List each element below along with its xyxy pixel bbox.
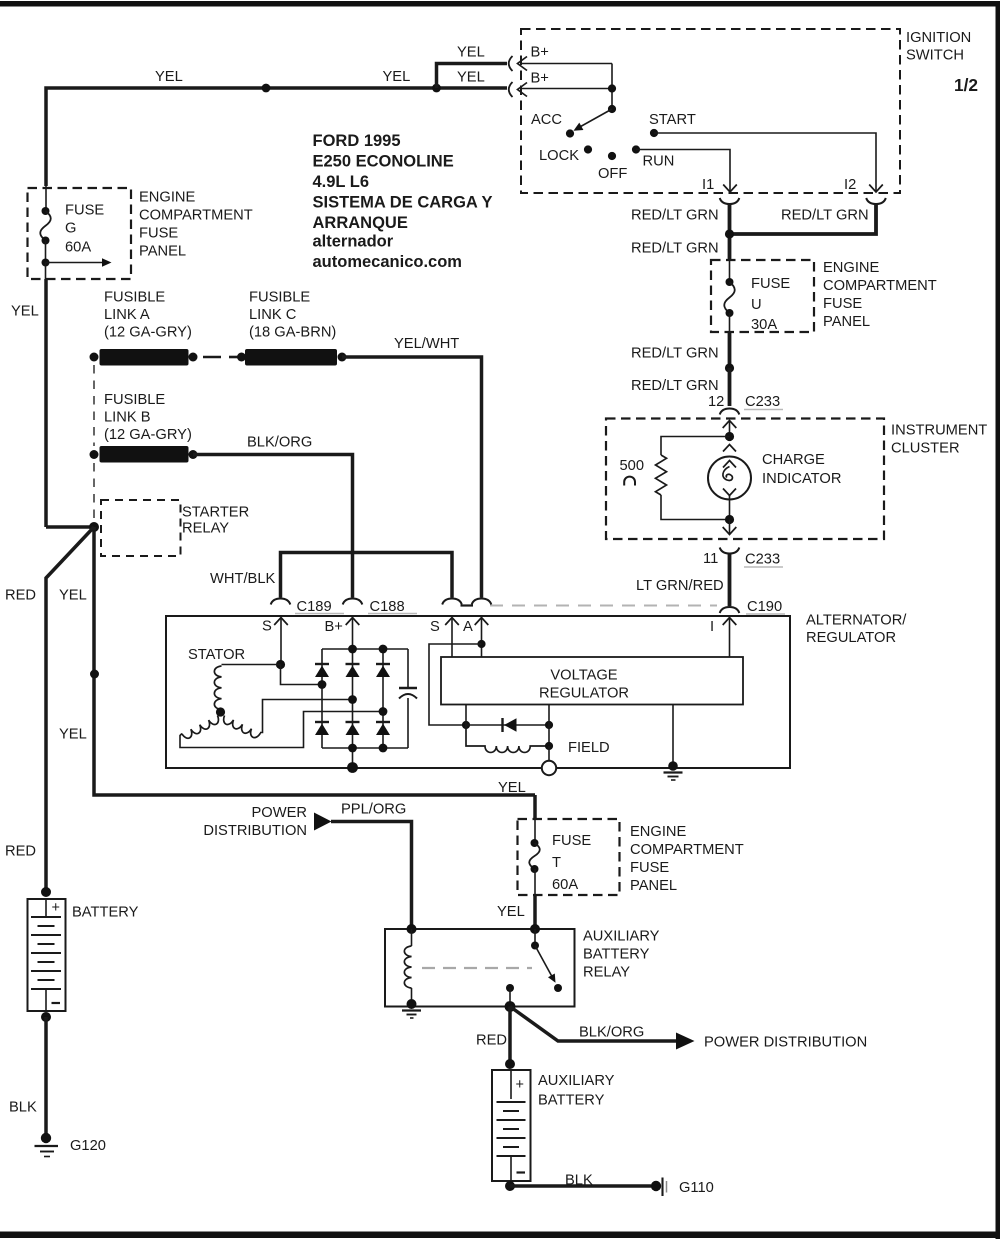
node starter relay terminal dot [89, 522, 99, 532]
svg-text:WHT/BLK: WHT/BLK [210, 571, 275, 587]
wire YEL relay to bottom run [94, 527, 535, 795]
wire YEL branch to upper B+ connector [437, 64, 508, 89]
resistor 500 ohm loop wiring [661, 437, 730, 456]
svg-text:FIELD: FIELD [568, 740, 610, 756]
svg-text:ENGINE: ENGINE [823, 260, 880, 276]
fuse U panel dashed box [711, 260, 814, 332]
node dot B+ junction [608, 84, 616, 92]
ground G120 [41, 1133, 51, 1143]
node stator center junction [216, 707, 225, 716]
svg-text:B+: B+ [325, 619, 343, 635]
svg-text:RED: RED [5, 588, 36, 604]
relay coil [411, 929, 413, 946]
svg-text:RED/LT GRN: RED/LT GRN [781, 208, 869, 224]
svg-text:IGNITION: IGNITION [906, 30, 971, 46]
svg-text:C189: C189 [297, 599, 332, 615]
wire YEL fuse T to relay [533, 895, 537, 929]
node rectifier bottom rail junction B+ [348, 744, 357, 753]
connector A cup [472, 599, 492, 605]
svg-text:RED/LT GRN: RED/LT GRN [631, 241, 719, 257]
node aux battery plus dot [505, 1059, 515, 1069]
svg-text:YEL: YEL [59, 727, 87, 743]
svg-text:FUSIBLE: FUSIBLE [104, 392, 165, 408]
wire PPL/ORG [331, 822, 412, 930]
wire YEL down to fuse T [533, 795, 537, 819]
pin S stator arrow [274, 618, 288, 626]
wire YEL into starter relay [46, 525, 94, 529]
svg-text:30A: 30A [751, 317, 777, 333]
svg-text:G120: G120 [70, 1138, 106, 1154]
node rectifier top rail junction B+ [348, 645, 357, 654]
border frame right [996, 1, 1000, 1239]
svg-text:C233: C233 [745, 394, 780, 410]
svg-text:LT GRN/RED: LT GRN/RED [636, 578, 724, 594]
connector C189 cup [271, 599, 291, 605]
stator winding phase 1 coil [222, 664, 281, 666]
node relay coil bottom dot [407, 999, 417, 1009]
svg-text:(12 GA-GRY): (12 GA-GRY) [104, 427, 192, 443]
node battery plus dot [41, 887, 51, 897]
node junction dot on top YEL wire [262, 84, 271, 93]
svg-text:CLUSTER: CLUSTER [891, 441, 960, 457]
svg-text:S: S [430, 619, 440, 635]
rectifier column 2 (B+) [352, 649, 354, 768]
svg-text:INDICATOR: INDICATOR [762, 471, 841, 487]
node junction dot I1/I2 [725, 229, 734, 238]
stator winding phase 3 coil (to lower right) [221, 716, 260, 740]
node phase2 tap [348, 695, 357, 704]
diode D5 lower [346, 721, 360, 723]
svg-text:U: U [751, 297, 762, 313]
node ACC contact dot [566, 129, 574, 137]
diode D4 lower [315, 721, 329, 723]
pin I arrow [723, 618, 737, 626]
rectifier column 1 [321, 649, 323, 748]
svg-text:S: S [262, 619, 272, 635]
node LOCK contact dot [584, 145, 592, 153]
svg-text:+: + [52, 900, 60, 916]
svg-text:STATOR: STATOR [188, 647, 245, 663]
fuse G panel dashed box [28, 188, 132, 279]
svg-text:G110: G110 [679, 1180, 714, 1196]
svg-text:(18 GA-BRN): (18 GA-BRN) [249, 325, 336, 341]
svg-text:PPL/ORG: PPL/ORG [341, 802, 406, 818]
svg-text:PANEL: PANEL [630, 878, 677, 894]
svg-text:BATTERY: BATTERY [583, 947, 650, 963]
svg-text:REGULATOR: REGULATOR [806, 630, 896, 646]
svg-text:START: START [649, 112, 696, 128]
diode D2 upper [346, 663, 360, 665]
connector row short black dash between S and A [461, 604, 474, 606]
svg-text:A: A [463, 619, 473, 635]
svg-text:G: G [65, 221, 76, 237]
auxiliary battery relay box [385, 929, 575, 1007]
svg-text:C188: C188 [370, 599, 405, 615]
node field right dot [545, 721, 553, 729]
svg-text:ARRANQUE: ARRANQUE [313, 214, 408, 232]
connector B+ upper (female arc + male arrow) [509, 56, 513, 71]
svg-text:FUSE: FUSE [139, 226, 178, 242]
svg-text:RED: RED [476, 1033, 507, 1049]
svg-text:B+: B+ [531, 71, 549, 87]
svg-text:PANEL: PANEL [823, 314, 870, 330]
capacitor C1 [407, 649, 409, 687]
svg-text:PANEL: PANEL [139, 244, 186, 260]
wire RUN to I1 [636, 150, 730, 185]
pin A arrow [475, 618, 489, 626]
pin B+ arrow [346, 618, 360, 626]
svg-text:YEL: YEL [11, 304, 39, 320]
rectifier bottom rail [322, 747, 408, 749]
field terminal circle [548, 746, 550, 761]
relay coil ground hatch [402, 1009, 421, 1011]
node junction dot lamp bottom [729, 496, 731, 520]
regulator ground [672, 705, 674, 764]
relay actuation gray dashed line [422, 967, 532, 969]
svg-text:COMPARTMENT: COMPARTMENT [823, 278, 937, 294]
connector S cup [442, 599, 462, 605]
svg-text:YEL: YEL [59, 588, 87, 604]
wire RED/LT GRN from I2 elbow [733, 204, 876, 234]
svg-text:FUSE: FUSE [823, 296, 862, 312]
svg-text:RED/LT GRN: RED/LT GRN [631, 378, 719, 394]
svg-text:BLK: BLK [565, 1173, 593, 1189]
node stator S junction dot [276, 660, 285, 669]
node dot on YEL drop [90, 670, 99, 679]
svg-text:REGULATOR: REGULATOR [539, 686, 629, 702]
connector B+ lower [509, 82, 513, 97]
svg-text:POWER DISTRIBUTION: POWER DISTRIBUTION [704, 1035, 867, 1051]
fuse G element [45, 186, 47, 211]
fuse U element [729, 260, 731, 282]
svg-text:YEL/WHT: YEL/WHT [394, 336, 459, 352]
svg-text:YEL: YEL [457, 70, 485, 86]
wire VR bottom to field right [548, 705, 550, 747]
svg-text:LINK B: LINK B [104, 410, 151, 426]
svg-text:FUSE: FUSE [65, 203, 104, 219]
node OFF contact dot [608, 152, 616, 160]
alternator/regulator box [166, 616, 790, 768]
svg-text:RELAY: RELAY [583, 965, 630, 981]
svg-text:ENGINE: ENGINE [630, 824, 687, 840]
svg-text:I: I [710, 619, 714, 635]
male arrow out of cluster [729, 520, 731, 535]
svg-text:YEL: YEL [457, 45, 485, 61]
node B+ ground-side big dot [347, 762, 358, 773]
svg-text:BLK/ORG: BLK/ORG [247, 435, 312, 451]
node START contact dot [650, 129, 658, 137]
svg-text:VOLTAGE: VOLTAGE [550, 668, 617, 684]
node junction dot [725, 363, 734, 372]
wire A to field left node [429, 644, 482, 725]
svg-text:SISTEMA DE CARGA Y: SISTEMA DE CARGA Y [313, 194, 493, 212]
svg-text:BLK/ORG: BLK/ORG [579, 1025, 644, 1041]
node aux battery minus dot [505, 1181, 515, 1191]
svg-text:YEL: YEL [383, 69, 411, 85]
svg-text:1/2: 1/2 [954, 75, 978, 95]
node relay coil top dot [407, 924, 417, 934]
stator winding phase 2 coil (to lower left) [182, 716, 221, 741]
connector C188 cup [343, 599, 363, 605]
svg-text:RED/LT GRN: RED/LT GRN [631, 346, 719, 362]
connector row gray dashed line [490, 605, 717, 607]
svg-text:12: 12 [708, 394, 724, 410]
connector C233 top (female cup) [720, 409, 740, 415]
svg-text:FUSE: FUSE [630, 860, 669, 876]
svg-text:OFF: OFF [598, 166, 627, 182]
svg-text:I2: I2 [844, 177, 856, 193]
rectifier column 3 [382, 649, 384, 748]
wire BLK/ORG [193, 455, 353, 598]
svg-text:COMPARTMENT: COMPARTMENT [139, 208, 253, 224]
node junction dot YEL branch [432, 84, 441, 93]
svg-text:(12 GA-GRY): (12 GA-GRY) [104, 325, 192, 341]
svg-text:YEL: YEL [155, 69, 183, 85]
wire BLK/ORG to power distribution [510, 1007, 676, 1042]
svg-text:60A: 60A [65, 240, 91, 256]
field winding coil [466, 725, 549, 752]
border frame bottom [0, 1232, 1000, 1239]
wire LT GRN/RED [728, 554, 732, 607]
node RUN contact dot [632, 145, 640, 153]
svg-text:BLK: BLK [9, 1100, 37, 1116]
auxiliary battery symbol [492, 1070, 531, 1181]
svg-text:B+: B+ [531, 45, 549, 61]
wire ignition internal B+ upper [521, 63, 612, 65]
svg-text:LOCK: LOCK [539, 148, 579, 164]
instrument cluster dashed box [606, 419, 884, 540]
svg-text:alternador: alternador [313, 233, 394, 251]
svg-text:BATTERY: BATTERY [538, 1093, 605, 1109]
wire ignition internal B+ lower [521, 88, 612, 90]
node relay output dot [506, 984, 514, 992]
wire START to I2 [654, 133, 876, 184]
svg-text:C233: C233 [745, 552, 780, 568]
wire stator phase 2 bottom run [180, 712, 383, 748]
ignition switch dashed box [521, 29, 900, 193]
svg-text:500: 500 [620, 458, 645, 474]
node rectifier top rail junction col3 [379, 645, 388, 654]
svg-text:ALTERNATOR/: ALTERNATOR/ [806, 613, 907, 629]
charge indicator lamp [723, 445, 736, 452]
svg-text:DISTRIBUTION: DISTRIBUTION [203, 823, 307, 839]
wire BLK battery to G120 [44, 1017, 48, 1138]
node relay switch feed dot [530, 924, 540, 934]
wire YEL main top horizontal [46, 88, 507, 186]
wire ignition internal vertical [611, 64, 613, 110]
diode D1 upper [315, 663, 329, 665]
node battery minus dot [41, 1012, 51, 1022]
connector I2 female cup [866, 198, 886, 204]
svg-text:automecanico.com: automecanico.com [313, 253, 462, 271]
svg-text:BATTERY: BATTERY [72, 905, 139, 921]
svg-text:RELAY: RELAY [182, 521, 229, 537]
svg-text:11: 11 [703, 551, 718, 567]
node dot switch pivot [608, 105, 616, 113]
ground G110 [651, 1181, 661, 1191]
svg-text:INSTRUMENT: INSTRUMENT [891, 423, 987, 439]
node A wire junction dot [477, 640, 485, 648]
svg-text:RED/LT GRN: RED/LT GRN [631, 208, 719, 224]
svg-text:ENGINE: ENGINE [139, 190, 196, 206]
wire RED/LT GRN fuse to C233 [728, 332, 732, 368]
svg-text:FUSIBLE: FUSIBLE [104, 290, 165, 306]
wire BLK to G110 [510, 1184, 651, 1188]
connector I1 female cup [720, 198, 740, 204]
svg-text:YEL: YEL [498, 780, 526, 796]
node field coil right dot [545, 742, 553, 750]
wire VR bottom to field left [465, 705, 467, 726]
svg-text:COMPARTMENT: COMPARTMENT [630, 842, 744, 858]
fuse T panel dashed box [518, 819, 620, 895]
pin S regulator arrow [445, 618, 459, 626]
svg-text:RUN: RUN [643, 154, 675, 170]
rectifier top rail [322, 648, 408, 650]
wire RED/LT GRN from I1 [728, 204, 732, 260]
svg-text:C190: C190 [747, 599, 782, 615]
node phase1 tap [318, 680, 327, 689]
wire WHT/BLK jumper C189 to S [281, 553, 453, 598]
fuse T element [534, 819, 536, 843]
svg-text:FUSE: FUSE [552, 833, 591, 849]
svg-text:RED: RED [5, 844, 36, 860]
svg-text:+: + [516, 1077, 524, 1093]
battery symbol [28, 899, 66, 1011]
wire YEL left vertical [45, 263, 47, 280]
svg-text:LINK C: LINK C [249, 307, 297, 323]
node junction dot lamp top [725, 432, 734, 441]
svg-text:T: T [552, 855, 561, 871]
node rectifier bottom rail junction col3 [379, 744, 388, 753]
svg-text:FUSIBLE: FUSIBLE [249, 290, 310, 306]
wire stator phase 1 to rectifier [281, 665, 323, 685]
power distribution arrow triangle [314, 813, 332, 831]
wire stator phase 3 to rectifier [260, 700, 353, 733]
node phase3 tap [379, 707, 388, 716]
border frame top [0, 1, 1000, 7]
svg-text:60A: 60A [552, 877, 578, 893]
wire RED to aux battery [508, 1007, 512, 1065]
svg-text:CHARGE: CHARGE [762, 452, 825, 468]
dashed tie line between fusible links A and B [93, 365, 95, 446]
svg-text:ACC: ACC [531, 112, 562, 128]
svg-text:LINK A: LINK A [104, 307, 150, 323]
dashed link between A and C [203, 356, 221, 359]
svg-text:SWITCH: SWITCH [906, 48, 964, 64]
svg-text:FUSE: FUSE [751, 276, 790, 292]
svg-text:4.9L L6: 4.9L L6 [313, 173, 370, 191]
male arrow into cluster [723, 421, 737, 429]
svg-text:E250 ECONOLINE: E250 ECONOLINE [313, 153, 454, 171]
svg-text:STARTER: STARTER [182, 505, 249, 521]
svg-text:FORD 1995: FORD 1995 [313, 132, 401, 150]
svg-text:POWER: POWER [252, 805, 308, 821]
starter relay dashed box [101, 500, 181, 556]
switch wiper arrow toward ACC [578, 109, 612, 128]
fuse G feed arrow [46, 262, 103, 264]
node field left dot [462, 721, 470, 729]
wire YEL/WHT [342, 357, 482, 598]
diode D7 field (pointing left) [466, 724, 549, 726]
node relay switch lower contact dot [554, 984, 562, 992]
wire RED diagonal down to battery [46, 527, 94, 891]
connector C190 (female cup) [720, 607, 740, 613]
svg-text:YEL: YEL [497, 904, 525, 920]
diode D6 lower [376, 721, 390, 723]
diode D3 upper [376, 663, 390, 665]
svg-text:AUXILIARY: AUXILIARY [538, 1073, 615, 1089]
voltage regulator box [441, 657, 743, 705]
connector C233 bottom (female cup) [720, 548, 740, 554]
relay switch contact arm [534, 929, 536, 946]
svg-text:I1: I1 [702, 177, 714, 193]
svg-text:AUXILIARY: AUXILIARY [583, 929, 660, 945]
